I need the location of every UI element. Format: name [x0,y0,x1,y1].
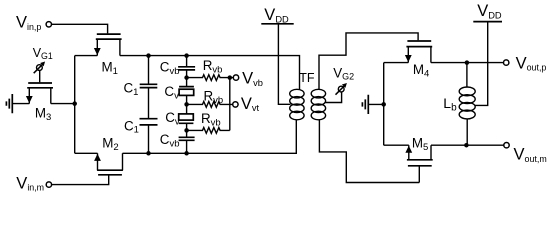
svg-text:TF: TF [299,71,315,85]
